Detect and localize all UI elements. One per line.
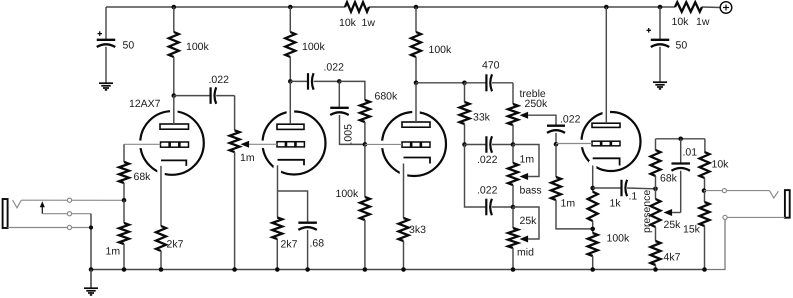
svg-text:.022: .022: [560, 114, 581, 126]
svg-text:bass: bass: [520, 185, 542, 197]
wire input jack switch contact: [42, 213, 91, 215]
resistor 3k3 (V2a cathode): [403, 164, 405, 219]
resistor 100k (V1b plate load): [288, 5, 293, 10]
svg-text:100k: 100k: [302, 41, 326, 53]
node slope resistor junction: [462, 81, 467, 86]
node V2a plate junction: [414, 81, 419, 86]
wire to V2a grid: [365, 143, 402, 145]
node bass pot top junction: [511, 142, 516, 147]
svg-text:4k7: 4k7: [664, 252, 681, 264]
node .01 cap junction: [678, 137, 683, 142]
resistor 10k (output divider top): [704, 139, 706, 152]
output jack tip contact: [769, 191, 778, 198]
svg-text:100k: 100k: [429, 44, 453, 56]
potentiometer 1m volume: [234, 96, 236, 131]
capacitor .022 (stage2 coupling): [290, 80, 308, 82]
ground rail bottom: [91, 269, 705, 271]
svg-text:.1: .1: [629, 191, 638, 203]
resistor 10k 1w (right dropping resistor): [675, 2, 702, 12]
svg-text:33k: 33k: [473, 112, 491, 124]
input jack body: [3, 199, 8, 228]
output jack body: [785, 190, 790, 218]
svg-text:50: 50: [676, 40, 688, 52]
svg-text:.68: .68: [310, 238, 325, 250]
svg-text:12AX7: 12AX7: [129, 98, 161, 110]
resistor 100k (V1a plate load): [172, 5, 177, 10]
svg-text:1m: 1m: [520, 154, 535, 166]
svg-text:1m: 1m: [240, 152, 255, 164]
triode V2b envelope with plate grid cathode: [582, 112, 641, 171]
capacitor .022 (tone stack lower): [465, 145, 487, 208]
svg-text:10k: 10k: [672, 16, 690, 28]
svg-text:25k: 25k: [520, 215, 538, 227]
wire output sleeve return: [705, 217, 726, 269]
svg-text:470: 470: [482, 60, 500, 72]
node 1k/100k junction: [590, 227, 595, 232]
wire top of 680k: [339, 81, 365, 100]
terminal circle output tip: [722, 189, 726, 193]
svg-text:10k: 10k: [712, 159, 730, 171]
wire plate to tone stack: [416, 82, 465, 84]
wire treble wiper to coupling cap: [528, 115, 556, 125]
resistor 15k (output divider bottom): [704, 191, 706, 202]
node presence network junction: [653, 187, 658, 192]
resistor 1m (input grid leak): [123, 200, 125, 223]
svg-text:15k: 15k: [683, 224, 701, 236]
triode V1b envelope with plate grid cathode: [263, 112, 326, 175]
input jack switch arrow: [41, 207, 43, 214]
ground (bottom left): [90, 270, 92, 289]
resistor 100k (V2b cathode lower): [588, 233, 598, 256]
svg-text:.01: .01: [683, 147, 698, 159]
node output junction: [702, 188, 707, 193]
svg-text:1k: 1k: [610, 198, 622, 210]
wire V2b plate to rail: [604, 5, 609, 10]
capacitor 470 (treble cap): [465, 82, 487, 84]
potentiometer 250k treble: [512, 83, 514, 104]
svg-text:3k3: 3k3: [409, 224, 426, 236]
resistor 100k (V2a plate load): [414, 5, 419, 10]
capacitor .01: [680, 139, 682, 163]
resistor 68k (input grid stopper): [124, 143, 161, 145]
node V1b plate junction: [288, 79, 293, 84]
svg-text:68k: 68k: [134, 171, 152, 183]
wire ground drop: [90, 214, 92, 270]
B+ supply terminal circle +: [720, 2, 732, 14]
power rail B+ top: [106, 6, 345, 8]
node V2b cathode junction: [592, 166, 594, 192]
resistor 33k (tone stack slope): [464, 83, 466, 102]
triode V2a envelope with plate grid cathode: [382, 112, 446, 176]
svg-text:2k7: 2k7: [167, 239, 184, 251]
potentiometer 1m bass: [512, 145, 514, 164]
wire input jack sleeve: [8, 227, 91, 229]
resistor 10k 1w (left dropping resistor): [345, 2, 369, 12]
capacitor 50 (left filter cap): [105, 7, 107, 39]
ground (left filter cap): [99, 82, 113, 84]
capacitor .022 (stage1 coupling): [174, 95, 211, 97]
node input network junction: [122, 198, 127, 203]
terminal circle tip: [67, 198, 71, 202]
svg-text:10k: 10k: [339, 17, 357, 29]
svg-text:.022: .022: [324, 62, 345, 74]
wire feedback network top: [656, 138, 705, 140]
node tone stack mid junction: [462, 142, 467, 147]
svg-text:1m: 1m: [106, 246, 121, 258]
resistor 1k (V2b cathode): [588, 192, 598, 221]
potentiometer 25k mid: [512, 207, 514, 228]
capacitor .022 (tone stack upper): [465, 144, 487, 146]
resistor 100k (V2a grid leak): [364, 144, 366, 197]
resistor 1m (V2b grid leak): [555, 144, 557, 177]
wire bass wiper loop: [513, 145, 539, 177]
svg-text:1w: 1w: [696, 16, 710, 28]
svg-text:presence: presence: [641, 190, 653, 233]
svg-text:25k: 25k: [664, 219, 682, 231]
svg-text:100k: 100k: [336, 188, 360, 200]
capacitor 50 (right filter cap): [658, 5, 663, 10]
potentiometer 25k presence: [655, 189, 657, 199]
svg-text:100k: 100k: [607, 233, 631, 245]
wire input tip to grid network: [21, 199, 124, 201]
capacitor .68 (V1b cathode bypass): [278, 191, 308, 222]
svg-text:.005: .005: [343, 124, 355, 145]
wire V1a plate lead: [173, 96, 175, 124]
node V1a plate junction: [172, 93, 177, 98]
svg-text:680k: 680k: [375, 91, 399, 103]
node V2a grid junction: [363, 142, 368, 147]
capacitor .022 (treble wiper coupling): [547, 125, 565, 127]
capacitor .005: [338, 81, 340, 107]
wire V2a plate lead: [415, 83, 417, 122]
input jack tip contact: [13, 200, 22, 208]
terminal circle switch: [67, 212, 71, 216]
terminal circle output sleeve: [723, 215, 727, 219]
svg-text:.022: .022: [209, 74, 230, 86]
wire to V2b grid: [556, 143, 592, 145]
svg-text:1m: 1m: [561, 198, 576, 210]
svg-text:100k: 100k: [186, 41, 210, 53]
triode V1a envelope with plate grid cathode: [140, 111, 204, 175]
resistor 680k: [360, 100, 370, 122]
svg-text:50: 50: [123, 40, 135, 52]
svg-text:1w: 1w: [362, 17, 376, 29]
capacitor .1 (presence coupling): [593, 187, 622, 189]
node V2b grid junction: [554, 142, 559, 147]
resistor 2k7 (V1b cathode): [277, 165, 279, 217]
wire mid wiper loop: [513, 207, 539, 239]
svg-text:.022: .022: [477, 154, 498, 166]
svg-text:68k: 68k: [660, 173, 678, 185]
node sleeve junction: [89, 225, 93, 229]
wire volume wiper to V1b grid: [249, 143, 277, 145]
resistor 68k (feedback): [655, 139, 657, 150]
ground (right filter cap): [653, 81, 667, 83]
svg-text:.022: .022: [477, 185, 498, 197]
node .005/680k top junction: [337, 79, 342, 84]
resistor 2k7 (V1a cathode): [160, 166, 162, 226]
wire output sleeve: [725, 216, 785, 218]
svg-text:2k7: 2k7: [281, 239, 298, 251]
svg-text:mid: mid: [517, 247, 534, 259]
resistor 4k7: [655, 227, 657, 241]
node mid pot junction: [511, 205, 516, 210]
wire output tip: [704, 190, 769, 192]
svg-text:250k: 250k: [525, 98, 549, 110]
terminal circle sleeve: [67, 225, 71, 229]
wire V1b plate lead: [289, 81, 291, 124]
